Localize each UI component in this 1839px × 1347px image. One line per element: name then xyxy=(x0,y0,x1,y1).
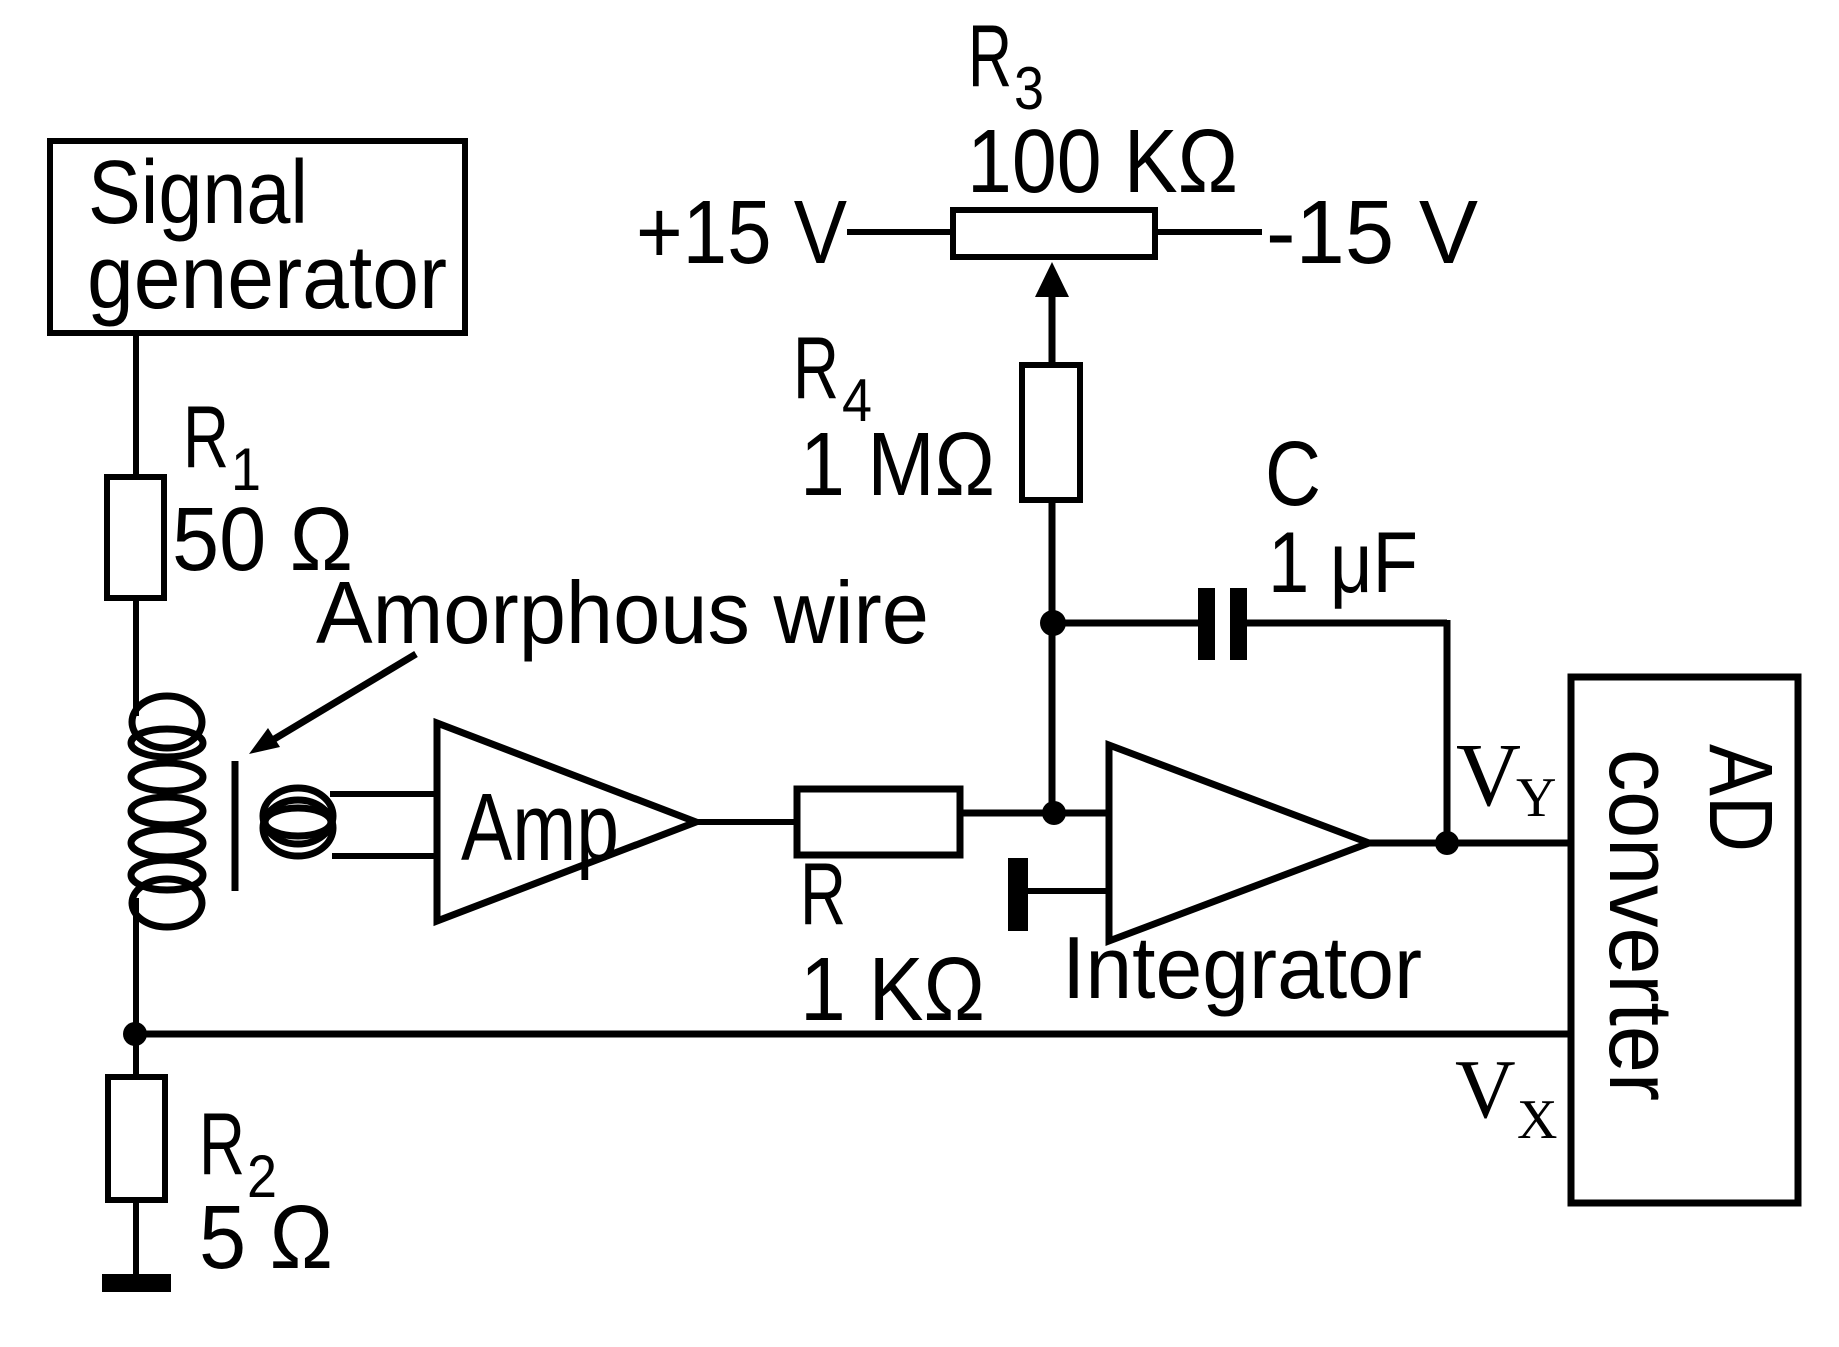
wire R1 to coil xyxy=(133,598,139,716)
resistor R xyxy=(797,789,960,855)
svg-text:Y: Y xyxy=(1516,767,1556,829)
svg-text:1 KΩ: 1 KΩ xyxy=(800,940,985,1040)
node input junction xyxy=(1042,801,1066,825)
svg-text:Amorphous wire: Amorphous wire xyxy=(316,563,929,662)
arrow from label to amorphous wire bar xyxy=(249,654,416,754)
wire feedback down to output xyxy=(1444,620,1451,843)
node capacitor junction xyxy=(1040,610,1066,636)
svg-text:100 KΩ: 100 KΩ xyxy=(967,112,1238,212)
resistor R1 xyxy=(107,477,164,598)
wire ground bar to integrator xyxy=(1028,888,1109,894)
amorphous wire bar xyxy=(232,761,239,891)
signal generator box xyxy=(50,141,465,333)
wire integrator output to AD converter xyxy=(1369,840,1571,847)
wire signal generator to R1 xyxy=(133,333,139,477)
wire pickup coil to amp top xyxy=(330,791,437,797)
ground xyxy=(102,1274,171,1292)
svg-text:R: R xyxy=(968,6,1012,105)
wire bottom VX line xyxy=(135,1031,1571,1038)
svg-text:Integrator: Integrator xyxy=(1062,918,1422,1017)
svg-text:AD: AD xyxy=(1690,744,1790,852)
svg-text:R: R xyxy=(793,318,839,417)
ground bar noninverting input xyxy=(1008,858,1028,931)
svg-text:1 MΩ: 1 MΩ xyxy=(800,415,995,515)
node bottom-left junction xyxy=(123,1022,147,1046)
svg-text:R: R xyxy=(199,1094,245,1193)
resistor R4 xyxy=(1022,365,1080,500)
label VY xyxy=(1456,726,1556,829)
svg-text:X: X xyxy=(1517,1089,1557,1151)
svg-text:+15 V: +15 V xyxy=(636,183,847,283)
svg-text:R: R xyxy=(183,387,229,486)
wire junction to R2 xyxy=(133,1034,139,1077)
wire junction to capacitor xyxy=(1053,620,1198,627)
wire amp to R xyxy=(696,819,797,825)
pickup coil xyxy=(263,788,333,856)
wire capacitor to feedback corner xyxy=(1247,620,1447,627)
label R3 xyxy=(968,6,1044,122)
wire pickup coil to amp bottom xyxy=(332,853,437,859)
label R2 xyxy=(199,1094,277,1210)
wire coil to bottom junction xyxy=(133,898,139,1034)
op-amp Integrator xyxy=(1109,745,1369,941)
svg-text:Amp: Amp xyxy=(461,774,619,881)
potentiometer R3 xyxy=(953,210,1155,257)
wire R3 to -15V xyxy=(1158,229,1262,235)
AD converter box xyxy=(1571,677,1798,1203)
svg-text:V: V xyxy=(1455,1043,1516,1136)
label VX xyxy=(1455,1043,1557,1151)
capacitor C plates xyxy=(1198,588,1247,660)
wiper arrow to R3 xyxy=(1035,262,1069,365)
node VY junction xyxy=(1435,831,1459,855)
svg-text:5 Ω: 5 Ω xyxy=(199,1188,333,1288)
label R1 xyxy=(183,387,261,503)
op-amp Amp xyxy=(437,723,696,921)
svg-text:-15 V: -15 V xyxy=(1266,183,1478,283)
svg-text:1 μF: 1 μF xyxy=(1268,515,1418,611)
label R4 xyxy=(793,318,872,434)
resistor R2 xyxy=(108,1077,165,1200)
svg-text:R: R xyxy=(800,844,846,943)
svg-text:generator: generator xyxy=(87,228,447,328)
svg-text:C: C xyxy=(1265,423,1321,525)
inductor primary coil xyxy=(131,696,203,927)
wire R to integrator input xyxy=(960,810,1109,817)
wire vertical junction column xyxy=(1049,500,1056,813)
svg-text:converter: converter xyxy=(1590,749,1690,1101)
svg-text:V: V xyxy=(1456,726,1521,825)
wire R2 to ground xyxy=(133,1200,139,1276)
wire +15V to R3 xyxy=(847,229,950,235)
